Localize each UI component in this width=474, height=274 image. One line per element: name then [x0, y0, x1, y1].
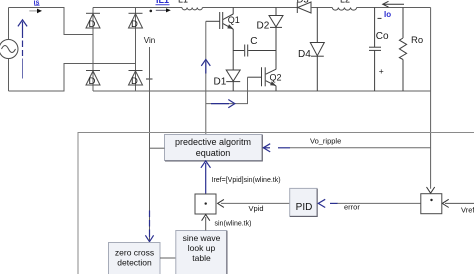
svg-text:C: C	[250, 36, 257, 47]
diode bridge top-right	[129, 13, 143, 28]
label Io (blue)	[384, 10, 391, 19]
arrow Iref up into predictive box (blue)	[201, 161, 211, 194]
svg-text:look up: look up	[188, 243, 216, 253]
svg-text:Io: Io	[384, 10, 391, 19]
block: multiplier	[195, 194, 216, 214]
wire bottom rail (bridge bottom to output right corner)	[93, 90, 431, 92]
svg-text:Vin: Vin	[144, 36, 155, 45]
arrow IL1 direction	[156, 8, 171, 12]
svg-text:D4: D4	[298, 49, 311, 60]
wire Vo_ripple	[290, 147, 431, 149]
arrow gate signal right (blue)	[211, 100, 235, 108]
wire source left vertical below circle	[8, 59, 10, 92]
wire error (summer to PID)	[337, 202, 421, 204]
svg-text:D: D	[131, 76, 138, 87]
wire source top: Vs to bridge left leg midpoint	[9, 8, 94, 35]
svg-text:Iref=[Vpid]sin(wline.tk): Iref=[Vpid]sin(wline.tk)	[212, 177, 281, 184]
wire bridge top connector / positive rail to L1	[93, 7, 182, 9]
diode D1	[226, 51, 240, 92]
svg-text:+: +	[379, 66, 384, 76]
arrow Vref into summer	[442, 199, 448, 207]
transistor Q2 (IGBT)	[248, 67, 277, 91]
svg-text:Q2: Q2	[270, 72, 282, 82]
wire rail L1 to D3	[202, 7, 297, 9]
control boundary box	[78, 133, 474, 274]
svg-text:D1: D1	[214, 77, 227, 88]
node Vin probe dot	[150, 10, 153, 13]
arrow Vo_ripple into predictive box (blue)	[263, 144, 290, 152]
svg-text:detection: detection	[117, 258, 152, 268]
diode bridge bottom-left	[86, 71, 100, 86]
arrow error into PID (blue)	[318, 199, 337, 207]
node: bridge left leg	[92, 8, 94, 92]
wire rail L2 to output corner	[357, 7, 431, 9]
svg-text:predective algoritm: predective algoritm	[175, 137, 251, 147]
svg-text:Q1: Q1	[228, 15, 240, 25]
wire Vin stub into predictive box	[150, 147, 165, 149]
resistor Ro	[399, 8, 406, 92]
arrow Io (points left)	[384, 3, 404, 5]
wire Vref input	[445, 202, 474, 204]
svg-text:L2: L2	[340, 0, 350, 5]
diode D2	[269, 8, 283, 70]
svg-text:sin(wline.tk): sin(wline.tk)	[215, 221, 252, 228]
block: zero cross detection	[109, 243, 161, 274]
svg-text:zero cross: zero cross	[115, 248, 154, 258]
wire zero cross to sine table	[160, 257, 176, 259]
svg-text:D: D	[89, 76, 96, 87]
diode bridge bottom-right	[129, 71, 143, 86]
block: PID	[290, 188, 318, 216]
label IL1 (blue, clipped at top)	[156, 0, 170, 5]
svg-text:error: error	[344, 202, 360, 211]
wire source left vertical above circle	[8, 8, 10, 40]
svg-text:Co: Co	[376, 31, 389, 42]
svg-text:sine wave: sine wave	[183, 233, 221, 243]
wire sin(wline.tk) into multiplier	[205, 217, 207, 231]
svg-text:D: D	[89, 19, 96, 30]
arrow gate signal up (blue)	[201, 59, 210, 73]
block: sine wave look up table	[176, 231, 227, 274]
svg-text:D3: D3	[297, 0, 309, 6]
svg-text:table: table	[192, 253, 211, 263]
svg-text:D: D	[131, 19, 138, 30]
wire output feedback vertical (Vo sense, down to summer)	[430, 8, 432, 189]
wire gate trunk (from predictive box up to Q1 gate)	[205, 21, 207, 134]
wire Q2 gate branch	[206, 77, 248, 103]
svg-text:Vo_ripple: Vo_ripple	[310, 137, 341, 146]
diode D4	[310, 8, 324, 92]
wire Vin sense line down to zero cross detection	[149, 47, 151, 242]
svg-text:L1: L1	[178, 0, 188, 5]
block: predictive algorithm equation	[165, 135, 263, 162]
arrow Vpid into multiplier	[218, 199, 224, 207]
wire source bottom: Vs to bridge right leg midpoint	[9, 64, 136, 92]
svg-text:PID: PID	[296, 202, 313, 213]
label Co minus mark	[378, 17, 382, 19]
svg-text:D2: D2	[257, 20, 270, 31]
label is (blue, clipped at top)	[34, 0, 40, 6]
arrow source current (blue, up)	[18, 20, 27, 79]
inductor L1	[182, 8, 202, 10]
arrow sin input up	[202, 215, 210, 221]
block: summer	[421, 194, 442, 214]
arrow is direction	[29, 9, 42, 14]
capacitor Co	[369, 8, 381, 92]
transistor Q1 (IGBT)	[206, 8, 233, 51]
capacitor C	[233, 45, 276, 57]
svg-text:Ro: Ro	[411, 35, 423, 46]
svg-text:Vref: Vref	[461, 206, 474, 215]
ac source Vs	[0, 40, 18, 59]
svg-text:equation: equation	[196, 148, 231, 158]
arrow into summer (down)	[427, 187, 435, 193]
diode D3 (in series in rail, cathode left)	[297, 2, 311, 13]
inductor L2	[332, 8, 356, 11]
wire Vpid (PID output to multiplier)	[221, 202, 290, 204]
svg-text:Vpid: Vpid	[249, 204, 264, 213]
node: bridge right leg	[135, 8, 137, 92]
label Vin minus mark	[146, 78, 153, 80]
arrow Vin into zero cross detection (blue dashed)	[145, 211, 153, 242]
diode bridge top-left	[86, 13, 100, 28]
wire rail D3 to L2	[311, 7, 332, 9]
